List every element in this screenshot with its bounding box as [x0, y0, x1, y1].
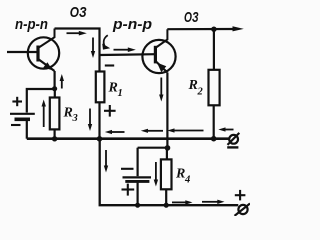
svg-text:4: 4 [184, 175, 190, 186]
svg-text:2: 2 [197, 87, 204, 98]
svg-text:R: R [108, 81, 118, 96]
svg-text:R: R [175, 167, 185, 182]
svg-text:1: 1 [118, 88, 123, 99]
svg-text:n-p-n: n-p-n [15, 17, 48, 33]
svg-text:3: 3 [72, 113, 78, 124]
svg-text:R: R [188, 78, 198, 93]
svg-text:R: R [63, 106, 73, 121]
svg-text:ОЗ: ОЗ [184, 9, 199, 26]
svg-text:ОЗ: ОЗ [70, 4, 87, 21]
svg-text:p-n-p: p-n-p [112, 17, 152, 33]
